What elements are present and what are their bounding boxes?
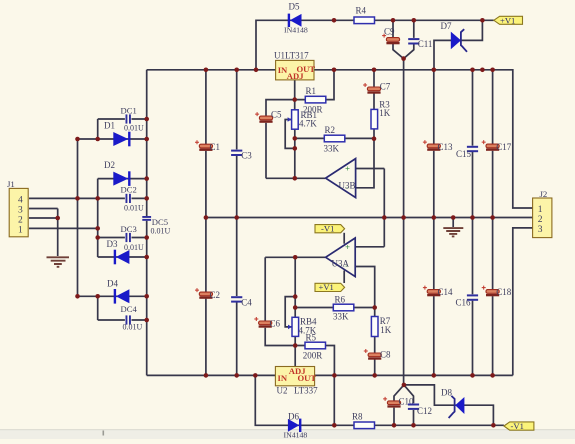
capacitor C8 xyxy=(364,349,382,360)
junction dots OUT rail xyxy=(332,68,495,73)
capacitor DC2 xyxy=(126,194,131,203)
wire C1/C2 column xyxy=(205,70,207,376)
capacitor C6 xyxy=(254,317,272,328)
op-amp U3A xyxy=(326,238,356,277)
wire U3B + input xyxy=(356,168,385,170)
capacitor DC4 xyxy=(126,315,131,324)
label C18 xyxy=(496,287,512,297)
wire U2 IN rail xyxy=(147,374,276,376)
svg-text:C4: C4 xyxy=(241,297,252,307)
wire R5 leads xyxy=(295,346,334,376)
svg-text:C3: C3 xyxy=(241,151,252,161)
svg-text:0.01U: 0.01U xyxy=(124,203,144,212)
wire U3A V+ pin xyxy=(343,233,345,244)
svg-text:C18: C18 xyxy=(496,287,512,297)
diode D4 xyxy=(115,289,129,304)
wire RB1 top lead xyxy=(294,100,296,110)
pin 4 of J1 xyxy=(18,196,23,206)
svg-text:D3: D3 xyxy=(107,239,118,249)
junction dots bottom aux wire xyxy=(332,423,496,428)
svg-text:J1: J1 xyxy=(7,179,15,189)
svg-text:D6: D6 xyxy=(288,412,299,422)
svg-text:+: + xyxy=(345,163,350,173)
svg-text:C13: C13 xyxy=(438,142,454,152)
diode D5 xyxy=(289,14,302,27)
value 0.01U of DC1 xyxy=(124,124,144,133)
wire OUT-to-aux link x=334 xyxy=(333,375,335,425)
label D4 xyxy=(107,279,118,289)
svg-text:1: 1 xyxy=(18,226,23,236)
capacitor C11 xyxy=(408,38,419,44)
wire U3A output xyxy=(265,256,325,258)
svg-text:C14: C14 xyxy=(438,287,454,297)
wire J2 pin3 feed xyxy=(513,228,533,376)
wire J1 pin2 xyxy=(29,217,58,219)
pin name IN of U2 xyxy=(278,373,288,383)
svg-text:U3B: U3B xyxy=(339,181,356,191)
wire opamp + ref column x=384.3 xyxy=(383,169,385,247)
label R8 xyxy=(352,411,363,421)
wire C5 loop top xyxy=(266,100,295,116)
pin 3 of J2 xyxy=(538,225,543,235)
wire bottom aux net: D6/R8 row xyxy=(374,424,504,426)
capacitor C14 xyxy=(423,286,441,297)
label R7 xyxy=(380,316,391,326)
label D1 xyxy=(104,120,115,130)
label J1 xyxy=(7,179,15,189)
regulator U1 LT317 xyxy=(276,60,314,80)
junction dot C9/C11 Y-node xyxy=(401,56,406,61)
label RB4 xyxy=(300,317,317,327)
svg-text:-V1: -V1 xyxy=(511,421,524,431)
value 4.7K of RB4 xyxy=(299,325,317,335)
label C5 xyxy=(271,109,282,119)
capacitor DC1 xyxy=(126,114,131,123)
svg-text:D2: D2 xyxy=(104,160,115,170)
junction dot C10/C12 Y-node xyxy=(402,383,407,388)
capacitor C9 xyxy=(382,34,400,45)
svg-text:3: 3 xyxy=(18,206,23,216)
svg-text:R1: R1 xyxy=(306,86,317,96)
wire left rectifier bus x=146.7 (upper) xyxy=(146,70,148,216)
wire R6 leads xyxy=(295,307,375,309)
value 1K of R7 xyxy=(380,325,392,335)
svg-text:+: + xyxy=(345,242,350,252)
value IN4148 of D6 xyxy=(284,431,308,440)
value 33K of R2 xyxy=(324,143,340,153)
connector J1 xyxy=(9,188,28,236)
svg-text:C15: C15 xyxy=(456,149,472,159)
svg-text:D4: D4 xyxy=(107,279,118,289)
wire DC1 stub xyxy=(97,119,99,139)
wire D6 drop xyxy=(255,375,354,425)
svg-text:R8: R8 xyxy=(352,411,363,421)
label R1 xyxy=(306,86,317,96)
pin 1 of J1 xyxy=(18,226,23,236)
wire U3B output xyxy=(266,177,325,179)
capacitor C5 xyxy=(255,112,273,123)
svg-text:200R: 200R xyxy=(303,351,323,361)
label C7 xyxy=(380,82,391,92)
wire C3/C4 column xyxy=(236,70,238,376)
wire U3A + input xyxy=(355,246,384,248)
wire DC1 loop xyxy=(98,118,147,120)
power flag +V1 (below U3A) xyxy=(315,282,345,292)
wire R2 leads xyxy=(295,137,374,139)
ground symbol on mid rail xyxy=(443,228,463,236)
svg-text:U3A: U3A xyxy=(332,259,350,269)
svg-text:D1: D1 xyxy=(104,120,115,130)
svg-text:ADJ: ADJ xyxy=(287,71,304,81)
svg-text:R6: R6 xyxy=(335,295,346,305)
wire RB4 riser xyxy=(294,257,296,317)
label DC3 xyxy=(121,224,137,234)
wire DC3 loop xyxy=(98,237,147,239)
label C13 xyxy=(438,142,454,152)
svg-text:R4: R4 xyxy=(356,6,367,16)
label C16 xyxy=(456,298,472,308)
label U3B xyxy=(339,181,356,191)
junction dot U2 ADJ node xyxy=(293,343,298,348)
label D2 xyxy=(104,160,115,170)
label C3 xyxy=(241,151,252,161)
label R4 xyxy=(356,6,367,16)
svg-text:C12: C12 xyxy=(417,406,432,416)
label C2 xyxy=(210,290,221,300)
svg-text:1K: 1K xyxy=(379,108,391,118)
wire U3B - feedback xyxy=(356,139,374,188)
svg-text:IN4148: IN4148 xyxy=(284,25,308,34)
svg-text:-V1: -V1 xyxy=(321,223,334,233)
power flag -V1 (bottom right) xyxy=(504,421,534,431)
svg-text:C6: C6 xyxy=(270,319,281,329)
ground symbol below J1 xyxy=(47,257,70,267)
label DC2 xyxy=(121,185,137,195)
junction dot R2/R3 node xyxy=(372,136,377,141)
value 0.01U of DC3 xyxy=(124,243,144,252)
wire C8 bottom lead xyxy=(374,359,376,376)
junction dots IN rail xyxy=(204,68,259,73)
resistor R2 xyxy=(324,135,345,142)
label U1LT317 xyxy=(274,51,309,61)
svg-text:3: 3 xyxy=(538,225,543,235)
svg-text:33K: 33K xyxy=(333,312,349,322)
resistor R6 xyxy=(333,304,354,311)
junction dots bottom IN rail xyxy=(204,373,258,378)
svg-text:C5: C5 xyxy=(271,109,282,119)
label U2 xyxy=(277,386,288,396)
label DC1 xyxy=(121,105,137,115)
wire DC4 loop xyxy=(98,319,147,321)
svg-text:DC2: DC2 xyxy=(121,185,137,195)
svg-text:+V1: +V1 xyxy=(500,15,515,25)
value 200R of R5 xyxy=(303,351,323,361)
wire U1 ADJ pin xyxy=(294,80,296,100)
label C14 xyxy=(438,287,454,297)
wire R7 column xyxy=(374,308,376,353)
wire U1 OUT rail y=70 to J2 pin1 xyxy=(314,70,533,208)
window bottom strip (decor) xyxy=(0,429,575,439)
wire RB1 wiper xyxy=(285,120,295,149)
capacitor C3 xyxy=(231,150,242,156)
capacitor C17 xyxy=(482,140,500,151)
label C17 xyxy=(496,142,512,152)
capacitor C1 xyxy=(195,140,213,151)
svg-text:DC3: DC3 xyxy=(121,224,137,234)
junction dots U3A output node xyxy=(293,255,298,310)
wire top aux net: D5/R4 row y=20 xyxy=(256,20,494,70)
pin 2 of J2 xyxy=(538,215,543,225)
junction dot J1 pin2/pin3 xyxy=(55,216,60,221)
svg-text:C2: C2 xyxy=(210,290,221,300)
svg-text:U1LT317: U1LT317 xyxy=(274,51,309,61)
svg-text:DC5: DC5 xyxy=(152,217,168,227)
svg-text:IN: IN xyxy=(278,373,288,383)
wire C13/C14 column xyxy=(433,70,435,376)
wire RB4 bottom / U2 ADJ xyxy=(294,336,296,366)
label D8 xyxy=(441,388,452,398)
zener diode D7 xyxy=(451,29,467,52)
wire ground stem J1 xyxy=(57,209,59,257)
wire C5 to U3B out xyxy=(265,123,267,179)
junction dots RB1 node xyxy=(293,136,298,181)
pin name OUT of U2 xyxy=(298,373,317,383)
wire C12 branch xyxy=(404,385,414,425)
label D6 xyxy=(288,412,299,422)
svg-text:C7: C7 xyxy=(380,82,391,92)
label C10 xyxy=(399,397,415,407)
wire C9 branch xyxy=(393,20,404,58)
wire D8 link upper xyxy=(404,385,494,425)
value 0.01U of DC5 xyxy=(151,226,171,235)
wire mid ground rail y=217.5 xyxy=(206,217,533,219)
svg-text:1K: 1K xyxy=(380,325,392,335)
svg-text:4.7K: 4.7K xyxy=(299,118,317,128)
pin name OUT of U1 xyxy=(297,64,316,74)
label C8 xyxy=(380,350,391,360)
label C4 xyxy=(241,297,252,307)
svg-text:U2: U2 xyxy=(277,386,288,396)
svg-text:D8: D8 xyxy=(441,388,452,398)
wire J1 pin1 xyxy=(29,227,98,229)
label J2 xyxy=(540,189,548,199)
label DC5 xyxy=(152,217,168,227)
resistor R5 xyxy=(305,342,326,349)
label U3A xyxy=(332,259,350,269)
op-amp U3B xyxy=(326,159,356,198)
label C12 xyxy=(417,406,432,416)
svg-text:DC4: DC4 xyxy=(121,304,138,314)
wire C11 branch xyxy=(404,20,414,58)
svg-text:C17: C17 xyxy=(496,142,512,152)
capacitor C4 xyxy=(231,296,242,302)
wire U1 IN rail y=70 xyxy=(147,69,276,71)
svg-text:IN4148: IN4148 xyxy=(284,431,308,440)
label D7 xyxy=(441,21,452,31)
svg-text:D7: D7 xyxy=(441,21,452,31)
label C9 xyxy=(384,27,395,37)
power flag -V1 (above U3A) xyxy=(315,223,345,233)
label RB1 xyxy=(301,110,318,120)
capacitor C13 xyxy=(423,140,441,151)
capacitor C2 xyxy=(195,288,213,299)
junction dots mid ground rail xyxy=(204,215,495,220)
svg-text:DC1: DC1 xyxy=(121,105,137,115)
wire left rectifier bus x=146.7 (lower) xyxy=(146,221,148,376)
pin 1 of J2 xyxy=(538,205,543,215)
svg-text:2: 2 xyxy=(538,215,543,225)
pin name IN of U1 xyxy=(278,65,288,75)
wire center column x=403.6 xyxy=(403,59,405,385)
wire left bus x=77.5 xyxy=(77,139,79,296)
svg-text:0.01U: 0.01U xyxy=(151,226,171,235)
wire C7 column xyxy=(373,70,375,110)
value 1K of R3 xyxy=(379,108,391,118)
junction dots top aux wire xyxy=(332,18,485,23)
diode D6 xyxy=(288,419,300,432)
wire C15/C16 column xyxy=(472,70,474,376)
junction dots bottom OUT rail xyxy=(332,373,495,378)
label R2 xyxy=(325,125,336,135)
regulator U2 LT337 xyxy=(275,367,314,386)
junction dots rectifier left buses xyxy=(75,137,100,299)
svg-text:4: 4 xyxy=(18,196,23,206)
value 4.7K of RB1 xyxy=(299,118,317,128)
connector J2 xyxy=(533,198,552,238)
capacitor C7 xyxy=(363,83,381,94)
svg-text:+V1: +V1 xyxy=(319,282,334,292)
capacitor DC3 xyxy=(126,233,131,242)
svg-text:1: 1 xyxy=(538,205,543,215)
label D3 xyxy=(107,239,118,249)
svg-text:0.01U: 0.01U xyxy=(124,243,144,252)
svg-text:C16: C16 xyxy=(456,298,472,308)
label C1 xyxy=(210,142,221,152)
svg-text:33K: 33K xyxy=(324,143,340,153)
wire U3A V- pin xyxy=(343,271,345,284)
svg-text:C1: C1 xyxy=(210,142,221,152)
diode D3 xyxy=(115,250,129,265)
label C15 xyxy=(456,149,472,159)
power flag +V1 (top right) xyxy=(494,15,523,25)
svg-text:C8: C8 xyxy=(380,350,391,360)
value IN4148 of D5 xyxy=(284,25,308,34)
svg-text:OUT: OUT xyxy=(298,373,317,383)
wire J1 pin3 xyxy=(29,208,58,210)
value 0.01U of DC4 xyxy=(123,322,143,331)
potentiometer RB4 xyxy=(288,317,299,336)
wire U2 OUT rail xyxy=(315,374,513,376)
capacitor C15 xyxy=(467,146,478,152)
junction dot R6/R7 node xyxy=(372,305,377,310)
value 33K of R6 xyxy=(333,312,349,322)
label C11 xyxy=(418,39,433,49)
svg-text:J2: J2 xyxy=(540,189,548,199)
wire U3A - feedback xyxy=(355,267,375,308)
pin 2 of J1 xyxy=(18,215,23,225)
junction dots rectifier right bus xyxy=(144,117,149,323)
wire J1 pin4 / DC2 row xyxy=(29,197,147,199)
wire RB1 bottom lead xyxy=(294,129,296,148)
label R5 xyxy=(306,332,317,342)
capacitor C16 xyxy=(467,294,478,300)
resistor R1 xyxy=(305,96,326,103)
pin name ADJ of U1 xyxy=(287,71,304,81)
zener diode D8 xyxy=(449,396,465,418)
wire ground stem mid xyxy=(452,218,454,228)
label DC4 xyxy=(121,304,138,314)
wire D4 branch xyxy=(78,295,147,297)
resistor R4 xyxy=(354,17,375,24)
capacitor DC5 xyxy=(142,216,151,221)
svg-text:4.7K: 4.7K xyxy=(299,325,317,335)
pin name ADJ of U2 xyxy=(289,366,306,376)
wire R1 leads xyxy=(295,70,334,100)
wire RB1 node to U3B out xyxy=(294,148,296,178)
label C6 xyxy=(270,319,281,329)
svg-text:2: 2 xyxy=(18,215,23,225)
resistor R3 xyxy=(371,109,378,128)
svg-text:LT337: LT337 xyxy=(294,386,318,396)
value 200R of R1 xyxy=(303,104,323,114)
capacitor C10 xyxy=(383,397,401,408)
svg-text:0.01U: 0.01U xyxy=(124,124,144,133)
resistor R8 xyxy=(354,422,375,429)
wire RB4 wiper xyxy=(285,297,295,327)
pin 3 of J1 xyxy=(18,206,23,216)
wire D3 branch xyxy=(98,256,147,258)
svg-text:0.01U: 0.01U xyxy=(123,322,143,331)
label R3 xyxy=(379,99,390,109)
capacitor C12 xyxy=(408,404,419,410)
wire C6 loop bottom xyxy=(265,328,295,346)
wire R3 bottom lead xyxy=(373,129,375,139)
label D5 xyxy=(289,2,300,12)
svg-text:R2: R2 xyxy=(325,125,336,135)
node U1 ADJ junction xyxy=(292,97,297,102)
wire inner bus x=97.7 xyxy=(97,179,99,257)
wire C10 branch xyxy=(394,385,404,425)
svg-text:C11: C11 xyxy=(418,39,433,49)
wire D7 branch xyxy=(434,20,482,70)
label R6 xyxy=(335,295,346,305)
svg-text:C9: C9 xyxy=(384,27,395,37)
wire D2 branch xyxy=(98,178,147,180)
value 0.01U of DC2 xyxy=(124,203,144,212)
svg-text:D5: D5 xyxy=(289,2,300,12)
diode D1 xyxy=(113,132,129,147)
wire C17/C18 column xyxy=(492,70,494,376)
wire D1 branch xyxy=(78,138,147,140)
label LT337 xyxy=(294,386,318,396)
wire C6 loop top xyxy=(264,257,266,321)
potentiometer RB1 xyxy=(288,110,299,129)
wire DC4 stub xyxy=(97,296,99,320)
capacitor C18 xyxy=(482,286,500,297)
resistor R7 xyxy=(371,317,378,337)
diode D2 xyxy=(113,171,129,186)
